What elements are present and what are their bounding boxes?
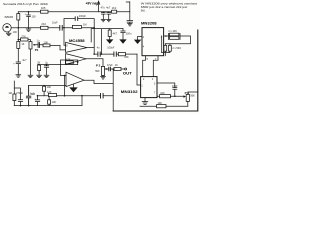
resistor 1K vertical	[17, 41, 20, 48]
svg-text:1M: 1M	[8, 92, 11, 95]
svg-text:2 x 5K6: 2 x 5K6	[172, 47, 181, 50]
svg-text:27K: 27K	[21, 35, 26, 38]
ground 47u	[101, 19, 105, 21]
svg-text:1K: 1K	[115, 64, 118, 67]
ground P2	[101, 77, 106, 79]
opamp2 output to P2	[86, 59, 103, 67]
bias rail with 4K7 + 100n	[91, 29, 123, 54]
rail A	[14, 96, 82, 106]
svg-text:100uF: 100uF	[107, 46, 115, 49]
capacitor 100u to ground	[27, 12, 31, 29]
svg-text:W MN3208 przy większej zamiast: W MN3208 przy większej zamiast	[141, 3, 198, 6]
svg-text:1K: 1K	[21, 43, 24, 46]
feedback 47K box	[61, 60, 78, 65]
resistor 10K vertical bottom	[48, 100, 51, 104]
op-amp U2 LFO	[66, 72, 84, 86]
svg-text:50K: 50K	[190, 94, 195, 97]
resistor 680R vertical	[17, 14, 20, 21]
+9V riser with decoupling cap and ground	[126, 2, 130, 21]
svg-text:5k6.: 5k6.	[141, 9, 146, 12]
svg-text:100: 100	[13, 31, 18, 34]
svg-text:2 x 10K: 2 x 10K	[168, 30, 177, 33]
ground P1	[28, 75, 33, 77]
svg-text:OUT: OUT	[123, 71, 132, 75]
bottom wire with 10K	[140, 105, 188, 107]
svg-text:100: 100	[32, 16, 37, 19]
svg-text:10K: 10K	[158, 102, 163, 105]
top rail wire	[18, 11, 130, 13]
svg-text:12K: 12K	[47, 91, 52, 94]
series cap on H2	[101, 93, 104, 98]
svg-text:10K: 10K	[44, 41, 49, 44]
svg-text:Serwada 2916 czyli Pan 433di: Serwada 2916 czyli Pan 433di	[3, 2, 48, 6]
ground 4u7	[107, 19, 111, 21]
opamp1 output wire	[87, 47, 94, 49]
+9V supply arrow	[97, 1, 99, 12]
svg-text:MC4558: MC4558	[69, 39, 85, 43]
svg-text:4u7: 4u7	[106, 6, 111, 9]
H2 wire	[65, 95, 114, 97]
15K resistor to MN3102	[126, 53, 138, 55]
op-amp U1b	[66, 54, 86, 65]
resistor 1K5	[41, 10, 49, 13]
svg-text:MN3208: MN3208	[141, 22, 157, 26]
svg-text:10K: 10K	[52, 101, 57, 104]
ground 100u	[26, 29, 31, 31]
svg-text:47uF: 47uF	[107, 64, 113, 67]
resistor 1M vertical	[13, 81, 15, 106]
svg-text:270pF: 270pF	[16, 92, 24, 95]
ground under LFO opamp	[73, 84, 75, 88]
junction node to opamp1	[63, 27, 65, 29]
frame bottom + right border	[113, 30, 198, 111]
svg-text:MN3102: MN3102	[121, 90, 138, 94]
svg-text:680R jest 2k2 a zamiast 2k2 je: 680R jest 2k2 a zamiast 2k2 jest	[141, 6, 188, 9]
MN3102 ground	[142, 98, 148, 105]
svg-text:1M: 1M	[83, 23, 86, 26]
resistor 2K2	[41, 26, 49, 29]
resistor 1K2	[112, 10, 117, 13]
svg-text:P 2: P 2	[96, 64, 101, 68]
LFO noninv input wire	[29, 85, 66, 87]
LFO output	[84, 69, 113, 111]
svg-text:3n3: 3n3	[31, 93, 36, 96]
svg-text:47K: 47K	[66, 58, 71, 61]
wire down to MN3102 pin1	[137, 54, 141, 85]
out terminal	[125, 68, 127, 70]
svg-text:47u: 47u	[101, 6, 106, 9]
resistor 12K	[48, 93, 56, 96]
cap 100n	[121, 29, 125, 40]
svg-text:+9V nap.: +9V nap.	[86, 1, 100, 5]
resistor 10K chain to pot	[157, 95, 185, 97]
feedback loop: 100pF + 1M	[64, 19, 94, 55]
svg-text:10K: 10K	[160, 92, 165, 95]
mic ground + label 100	[6, 32, 11, 36]
svg-text:4K7: 4K7	[113, 33, 118, 36]
svg-text:47pF: 47pF	[172, 85, 178, 88]
svg-text:4u7: 4u7	[22, 59, 27, 62]
pin 2 right	[164, 35, 170, 37]
ground 4u7	[16, 75, 21, 77]
svg-text:100n: 100n	[126, 33, 132, 36]
svg-text:680R: 680R	[5, 16, 14, 19]
svg-text:P1: P1	[35, 48, 39, 52]
svg-text:10uF: 10uF	[52, 21, 58, 24]
input wire	[18, 27, 64, 29]
svg-text:2K2: 2K2	[41, 23, 46, 26]
resistor 27K	[21, 38, 29, 41]
svg-text:10K: 10K	[47, 86, 52, 89]
pin 1 left	[138, 37, 142, 41]
resistor 1K	[114, 68, 121, 71]
resistor 10K to opamp1	[43, 44, 50, 47]
svg-text:15K: 15K	[124, 56, 129, 59]
svg-text:100pF: 100pF	[79, 15, 87, 18]
svg-text:50K: 50K	[95, 70, 100, 73]
47pF branch	[157, 83, 177, 96]
mic input	[3, 24, 11, 32]
ground 4K7	[107, 40, 113, 43]
svg-text:1K2: 1K2	[112, 7, 117, 10]
svg-text:1K5: 1K5	[41, 7, 46, 10]
resistor 10K vertical	[43, 86, 46, 91]
